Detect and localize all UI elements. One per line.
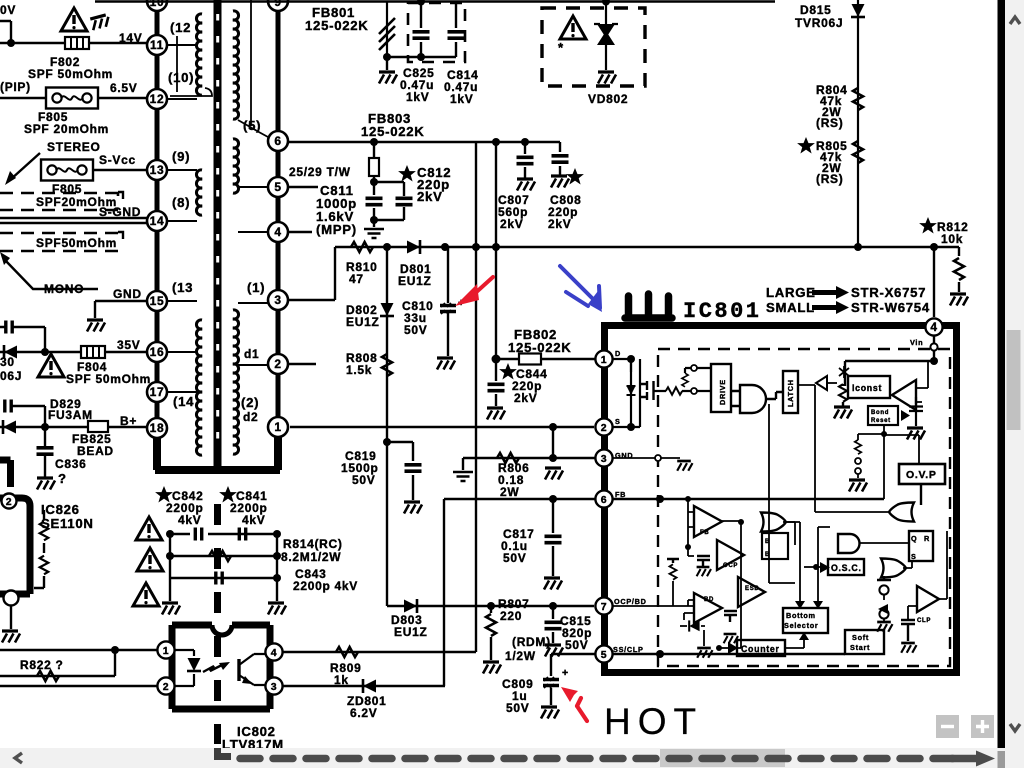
opto light arrow <box>203 665 222 672</box>
pin 14 <box>147 211 167 231</box>
svg-text:Q: Q <box>911 534 917 543</box>
wire pin3 internal <box>613 457 656 459</box>
svg-text:STR-W6754: STR-W6754 <box>851 300 930 315</box>
O.V.P block <box>899 464 945 484</box>
svg-text:S-Vcc: S-Vcc <box>99 153 136 167</box>
wire osc column <box>817 522 823 601</box>
svg-text:50V: 50V <box>506 701 529 715</box>
bidirectional diode VD802 <box>605 2 607 71</box>
wire bond column <box>858 425 884 440</box>
pin 2 opto <box>157 677 174 694</box>
resistor latch bias <box>842 361 844 382</box>
svg-text:O.V.P: O.V.P <box>906 469 937 481</box>
transformer bottom U bar <box>155 436 280 470</box>
wire gate to latch <box>766 392 783 399</box>
svg-text:FB: FB <box>700 530 709 536</box>
svg-text:CLP: CLP <box>917 618 931 624</box>
ground bd1 <box>697 648 712 658</box>
ground C836 <box>37 478 55 490</box>
wire top rail <box>95 0 775 2</box>
arrow SMALL <box>812 305 838 310</box>
diode D802 <box>380 303 394 316</box>
capacitor ocp <box>697 556 710 566</box>
ground C819 <box>404 502 422 514</box>
fuse F805b <box>41 160 93 181</box>
star R812 <box>921 219 935 232</box>
junction C819 <box>383 438 391 446</box>
pin 10 <box>147 0 167 11</box>
capacitor C817 <box>552 499 554 576</box>
capacitor C815 <box>552 606 554 643</box>
svg-text:(PIP): (PIP) <box>0 80 31 94</box>
wire FB802 rail <box>496 358 596 360</box>
svg-text:0V: 0V <box>0 3 16 17</box>
resistor R812 <box>954 258 964 280</box>
winding taps left <box>168 45 197 392</box>
capacitor bd <box>724 611 737 622</box>
svg-text:R: R <box>924 534 930 543</box>
svg-text:1: 1 <box>601 354 608 366</box>
pin 13 <box>147 160 167 180</box>
pin 12 <box>147 89 167 109</box>
wire cap to 35V rail <box>0 327 45 352</box>
ground FB801 <box>379 72 397 84</box>
inner dashed box <box>658 349 950 666</box>
ground GND <box>87 320 105 332</box>
pin 17 <box>147 382 167 402</box>
svg-text:2kV: 2kV <box>514 391 537 405</box>
ground C810 <box>437 358 455 370</box>
svg-text:EU1Z: EU1Z <box>346 315 379 329</box>
ground bd2 <box>724 634 738 643</box>
svg-text:13: 13 <box>150 163 165 177</box>
pin 2 secondary <box>268 354 288 374</box>
wire B+ rail <box>0 426 147 428</box>
svg-text:125-022K: 125-022K <box>508 340 572 355</box>
ground C808 <box>551 176 569 188</box>
pin 4 IC801 <box>925 318 942 335</box>
resistor R814 <box>209 551 231 561</box>
svg-text:(RS): (RS) <box>816 172 843 186</box>
warning triangle 1 <box>136 517 162 540</box>
AND gate mid <box>838 534 860 553</box>
svg-text:1kV: 1kV <box>406 90 429 104</box>
svg-text:15: 15 <box>150 294 165 308</box>
svg-text:(RS): (RS) <box>816 116 843 130</box>
wire R812 to ground <box>958 282 960 292</box>
star C812 <box>400 167 414 180</box>
wire FB801 gnd stem <box>386 57 388 70</box>
wire sel lines <box>815 522 834 533</box>
junction main 858 <box>854 243 862 251</box>
capacitor C809 electrolytic <box>550 654 552 705</box>
star C808 <box>568 170 582 183</box>
IC802 box <box>172 625 270 709</box>
wire comp to Vin bus <box>916 361 928 402</box>
junction C811 bottom <box>370 216 378 224</box>
sense resistor column <box>667 559 679 563</box>
OCP comparator <box>717 540 744 570</box>
wire row3 <box>170 577 277 579</box>
earth R806 <box>453 472 473 481</box>
arrows into selector <box>795 601 805 609</box>
wire opto pin1 left <box>0 649 157 651</box>
junction FB803 <box>370 138 378 146</box>
MOSFET symbol <box>631 359 640 427</box>
junction <box>41 423 49 431</box>
ground S/GND <box>545 468 563 480</box>
svg-text:B+: B+ <box>120 414 137 428</box>
junction C807 <box>521 138 529 146</box>
warning triangle F804 <box>38 354 64 377</box>
svg-text:2kV: 2kV <box>417 189 443 204</box>
right scrollbar down arrow <box>1010 724 1020 731</box>
svg-text:2kV: 2kV <box>548 217 571 231</box>
capacitor C842 <box>195 528 201 541</box>
resistor R804 <box>853 88 863 110</box>
resistor R805 <box>853 141 863 163</box>
capacitor clp <box>901 620 915 641</box>
arrow stereo <box>10 153 40 180</box>
warning triangle 3 <box>133 583 159 606</box>
Counter block <box>737 640 785 656</box>
arrow LARGE <box>812 290 838 295</box>
svg-text:+: + <box>562 667 569 679</box>
capacitor bond <box>909 397 923 426</box>
svg-text:25/29 T/W: 25/29 T/W <box>289 165 351 179</box>
IC801 outer box <box>605 326 957 673</box>
svg-text:18: 18 <box>150 421 165 435</box>
svg-text:Bottom: Bottom <box>786 611 816 620</box>
resistor R810 <box>351 242 373 252</box>
svg-text:3: 3 <box>274 293 281 307</box>
junction <box>7 39 15 47</box>
resistor R807 <box>490 606 492 613</box>
svg-text:50V: 50V <box>352 473 375 487</box>
capacitor C810 electrolytic <box>447 247 449 356</box>
svg-text:MONO: MONO <box>44 282 84 296</box>
svg-text:35V: 35V <box>117 338 140 352</box>
wire C812 loop <box>374 182 404 227</box>
primary bus thick line <box>155 0 160 439</box>
wire IC826 pin to ground <box>10 606 12 629</box>
svg-text:30: 30 <box>0 355 15 369</box>
svg-text:d2: d2 <box>243 410 258 424</box>
junction VD802 top <box>602 0 610 6</box>
pin 9 secondary top <box>268 0 288 11</box>
svg-text:14: 14 <box>150 214 165 228</box>
svg-text:EU1Z: EU1Z <box>398 274 431 288</box>
pin 4 secondary <box>268 222 288 242</box>
capacitor C841 <box>239 528 245 541</box>
ground C815 <box>545 645 563 657</box>
star mark Vin bus <box>839 366 849 378</box>
ground C844 <box>487 408 505 420</box>
diode D801 <box>407 240 420 254</box>
svg-text:5: 5 <box>274 180 281 194</box>
wire D803 rail <box>387 605 594 607</box>
capacitor C814 <box>455 2 457 58</box>
comparator left-facing <box>892 380 916 410</box>
pin 2 IC801 S <box>595 418 612 435</box>
zoom out button <box>936 715 959 738</box>
svg-text:Start: Start <box>850 643 870 652</box>
OR gate ovp (left facing) <box>889 503 914 522</box>
svg-text:STR-X6757: STR-X6757 <box>851 285 926 300</box>
right scrollbar thumb <box>1007 330 1021 430</box>
svg-text:LARGE: LARGE <box>766 285 816 300</box>
capacitor C811 <box>373 182 375 220</box>
capacitor C819 <box>405 465 422 471</box>
svg-text:4kV: 4kV <box>178 513 201 527</box>
capacitor left edge 35V <box>6 321 12 334</box>
svg-text:(12: (12 <box>170 20 191 35</box>
capacitor C825 <box>420 2 422 58</box>
svg-text:VD802: VD802 <box>588 92 628 106</box>
svg-text:GND: GND <box>113 287 142 301</box>
resistor R809 <box>336 647 358 657</box>
junction Vin <box>930 357 938 365</box>
svg-text:SS/CLP: SS/CLP <box>613 645 644 654</box>
diode bd <box>689 620 699 631</box>
junction C844 <box>492 355 501 364</box>
junction main 934 <box>930 243 938 251</box>
svg-text:6.5V: 6.5V <box>110 81 138 95</box>
wire pin4 to Vin <box>933 336 935 361</box>
svg-text:Reset: Reset <box>871 418 891 424</box>
pin 5 IC801 SS/CLP <box>595 645 612 662</box>
phototransistor <box>237 659 240 681</box>
svg-text:TVR06J: TVR06J <box>795 16 843 30</box>
svg-text:2kV: 2kV <box>500 217 523 231</box>
svg-text:D815: D815 <box>800 3 832 17</box>
svg-text:1kV: 1kV <box>450 92 473 106</box>
ground C809 <box>541 707 559 719</box>
bottom scrollbar thumb <box>660 749 785 767</box>
svg-text:1: 1 <box>274 420 281 434</box>
svg-text:2: 2 <box>163 681 170 693</box>
svg-text:BD: BD <box>704 597 714 603</box>
warning triangle 2 <box>137 548 163 571</box>
pin circle IC826 bottom <box>4 591 19 606</box>
star R805 <box>799 139 813 152</box>
pin 3 secondary <box>268 290 288 310</box>
wire GND line to pin3 <box>463 457 595 459</box>
svg-text:SPF 20mOhm: SPF 20mOhm <box>24 122 109 136</box>
wire opto pin4 right <box>283 651 476 653</box>
svg-text:HOT: HOT <box>604 701 703 742</box>
junction main 445 <box>441 243 449 251</box>
svg-text:2200p 4kV: 2200p 4kV <box>293 579 358 593</box>
svg-text:(5): (5) <box>243 118 261 133</box>
arrow mono <box>0 252 10 265</box>
right scrollbar up arrow <box>1010 17 1020 24</box>
svg-text:220: 220 <box>500 609 522 623</box>
LED inside opto <box>175 650 194 686</box>
svg-text:IC826: IC826 <box>41 502 80 517</box>
transformer core <box>214 0 222 467</box>
svg-text:1: 1 <box>163 645 170 657</box>
svg-text:R814(RC): R814(RC) <box>283 537 343 551</box>
junction FB/C817 <box>549 495 557 503</box>
resistor R806 <box>497 453 519 463</box>
drive AND gate <box>740 385 766 413</box>
fuse F802 <box>65 37 89 49</box>
svg-text:(14: (14 <box>173 394 194 409</box>
ground right column <box>268 603 286 615</box>
wire main rail <box>335 247 959 256</box>
pin 5 secondary <box>268 177 288 197</box>
svg-text:125-022K: 125-022K <box>361 124 425 139</box>
wire C836 <box>44 427 46 477</box>
black divider bar <box>998 0 1006 751</box>
ground bond <box>907 428 925 440</box>
wire pin2 stub <box>289 363 316 365</box>
wire cap to B+ <box>12 406 45 427</box>
junction main 387 <box>383 243 391 251</box>
svg-text:10k: 10k <box>941 232 963 246</box>
hot/cold boundary corner over scrollbar <box>214 748 231 757</box>
wire GND pin15 <box>95 301 147 318</box>
diode D803 <box>404 599 417 613</box>
svg-text:12: 12 <box>150 92 165 106</box>
ferrite bead FB825 <box>88 421 108 432</box>
svg-text:FB: FB <box>615 490 626 499</box>
pin circle IC826 top <box>2 494 17 509</box>
wire row2 <box>170 555 277 557</box>
buffer triangle latch <box>816 376 827 390</box>
svg-text:06J: 06J <box>0 369 22 383</box>
wire D815 vertical <box>857 0 859 247</box>
pin 1 secondary <box>268 417 288 437</box>
svg-text:4: 4 <box>274 225 281 239</box>
svg-text:(13: (13 <box>172 280 193 295</box>
OR gate osc <box>881 559 906 578</box>
pin 7 IC801 OCP/BD <box>595 597 612 614</box>
wire clp out <box>939 531 947 599</box>
wire or to left <box>815 511 890 513</box>
OR gate left col <box>761 513 786 532</box>
wire pin3 to rail <box>289 247 335 300</box>
wire R806 left to earth <box>462 458 464 470</box>
svg-text:?: ? <box>58 471 67 486</box>
svg-text:47: 47 <box>349 272 364 286</box>
O.S.C. block <box>828 559 864 575</box>
wire FB801 bottom rail <box>387 56 456 58</box>
ground left column <box>162 603 180 615</box>
ground VD802 <box>598 72 616 84</box>
ground C811 <box>364 229 384 238</box>
wire pin6 rail <box>289 141 560 143</box>
svg-text:5: 5 <box>601 649 608 661</box>
ground diode column <box>877 622 892 632</box>
junction main 496 <box>492 243 500 251</box>
red arrow annotation C809 <box>577 698 587 721</box>
IC826 box <box>0 460 30 594</box>
pin 4 opto <box>265 643 282 660</box>
junction R807 <box>487 602 495 610</box>
svg-text:Counter: Counter <box>741 644 780 654</box>
svg-text:8.2M1/2W: 8.2M1/2W <box>281 550 341 564</box>
svg-text:FU3AM: FU3AM <box>48 408 93 422</box>
svg-text:R822 ?: R822 ? <box>20 658 64 672</box>
wire R822 branch <box>0 650 115 676</box>
junction <box>41 348 49 356</box>
wire FB line <box>444 498 595 500</box>
wire FB inside <box>613 498 884 500</box>
svg-text:2: 2 <box>601 422 608 434</box>
junction S line <box>549 423 557 431</box>
ground clp <box>901 643 916 653</box>
junction FB801 <box>383 53 391 61</box>
svg-text:Selector: Selector <box>784 621 818 630</box>
svg-text:4: 4 <box>930 320 937 334</box>
svg-text:50V: 50V <box>503 551 526 565</box>
CLP comparator <box>917 586 939 612</box>
svg-text:BEAD: BEAD <box>77 444 114 458</box>
svg-text:125-022K: 125-022K <box>305 18 369 33</box>
wire drive feedback vertical <box>769 404 795 583</box>
Iconst block <box>848 376 890 398</box>
dashed isolation line vertical <box>214 504 221 744</box>
wire S-Vcc rail <box>94 169 147 171</box>
resistor R808 <box>382 354 392 376</box>
zoom in button <box>971 715 994 738</box>
dashed box SPF50mOhm <box>0 233 118 251</box>
wire left column <box>169 534 171 601</box>
svg-text:(RDM): (RDM) <box>512 635 551 649</box>
svg-text:SE110N: SE110N <box>41 516 94 531</box>
ground pin3 internal <box>677 461 692 471</box>
Soft Start block <box>845 630 884 654</box>
svg-text:7: 7 <box>601 601 608 613</box>
comparator block left <box>762 533 788 559</box>
wire snubber to pin2 line <box>475 143 477 652</box>
warning triangle top <box>61 8 87 31</box>
diode column right <box>877 576 891 580</box>
svg-text:11: 11 <box>150 38 164 52</box>
wire OVP top link <box>884 435 919 464</box>
dashed box SPF20mOhm <box>0 193 118 210</box>
pin 16 <box>147 342 167 362</box>
Vin node circle <box>930 343 937 350</box>
BD comparator <box>694 593 722 623</box>
svg-text:O.S.C.: O.S.C. <box>831 563 862 573</box>
secondary bus thick line <box>276 6 281 439</box>
svg-text:S: S <box>615 417 621 426</box>
ferrite bead FB801 <box>386 2 388 57</box>
ground C807 <box>517 179 535 191</box>
bottom scrollbar left arrow <box>15 753 22 763</box>
wire Vin bus left <box>845 361 934 386</box>
svg-text:d1: d1 <box>244 347 259 361</box>
capacitor C807 <box>524 142 526 178</box>
pin 15 <box>147 291 167 311</box>
svg-text:2: 2 <box>6 496 13 508</box>
arrow up selector <box>799 632 809 640</box>
diode osc <box>820 562 830 573</box>
wire 0V to 14V rail <box>0 21 147 43</box>
ground top (rotated) <box>90 14 110 30</box>
wire 6.5V rail <box>0 97 147 99</box>
wire pin5 stub <box>289 186 318 188</box>
svg-text:LATCH: LATCH <box>786 379 795 407</box>
right secondary winding <box>233 11 239 454</box>
wire D802/R808 branch <box>386 247 388 606</box>
svg-text:S: S <box>911 552 917 561</box>
svg-text:Vin: Vin <box>910 338 923 347</box>
svg-text:4kV: 4kV <box>242 513 265 527</box>
